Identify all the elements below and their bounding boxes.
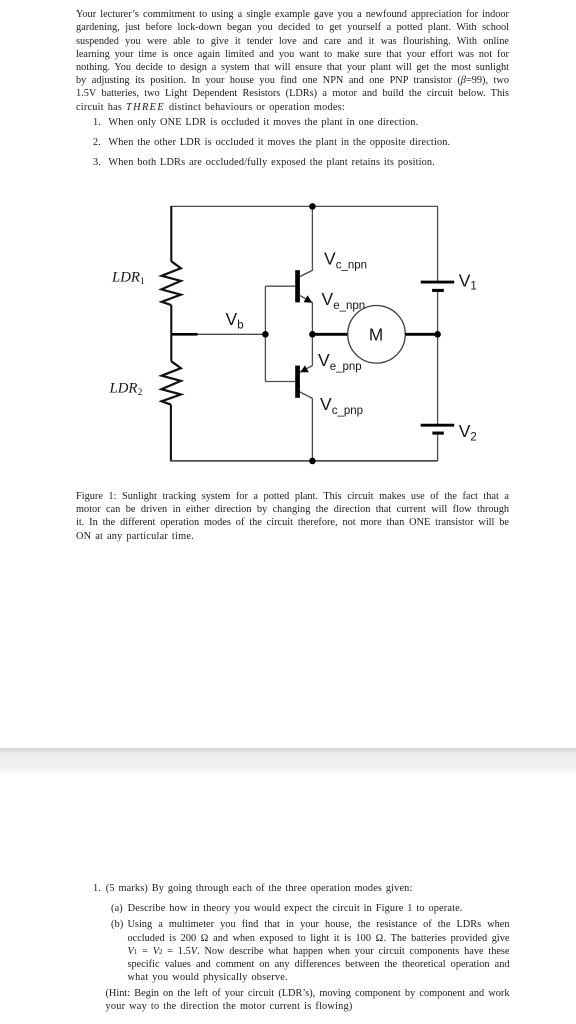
wire left rail middle [170, 305, 172, 361]
svg-text:M: M [369, 324, 383, 344]
junction node bottom [309, 458, 316, 465]
wire top [171, 205, 438, 207]
question block [93, 882, 413, 895]
wire left rail lower [170, 405, 172, 461]
transistor Q1 NPN emitter arrow [304, 295, 312, 302]
wire Vb thick tick [171, 333, 198, 336]
wire left rail upper [170, 206, 172, 262]
wire center rail node to PNP emitter [311, 334, 313, 366]
resistor LDR1 [161, 261, 181, 305]
wire right rail mid [437, 292, 439, 424]
motor M1 circle [348, 306, 406, 364]
junction node top [309, 203, 316, 210]
wire right rail bottom [437, 435, 439, 461]
svg-text:Vc_npn: Vc_npn [324, 248, 367, 271]
battery V1 plate long [421, 281, 455, 284]
wire center rail emitter to node [311, 302, 313, 334]
wire center rail upper [311, 206, 313, 270]
wire Q1 base [265, 285, 295, 287]
wire bottom [170, 460, 438, 462]
svg-text:V2: V2 [459, 421, 477, 443]
resistor LDR2 [161, 361, 181, 404]
transistor Q1 NPN base bar [295, 270, 300, 302]
transistor Q2 PNP emitter diagonal [300, 366, 313, 373]
svg-text:LDR2: LDR2 [109, 381, 143, 399]
transistor Q2 PNP collector diagonal [300, 392, 313, 399]
junction node center (emitters / motor) [309, 331, 316, 338]
caption [76, 490, 509, 503]
transistor Q1 NPN emitter diagonal [300, 295, 313, 302]
page separator band [0, 748, 576, 776]
svg-text:Vc_pnp: Vc_pnp [320, 394, 363, 417]
battery V2 plate long [421, 424, 455, 427]
svg-text:Ve_npn: Ve_npn [322, 289, 366, 312]
wire node to motor thick [312, 333, 348, 336]
battery V1 plate short [432, 289, 444, 292]
paragraph [76, 8, 509, 21]
junction node Vb [262, 331, 269, 338]
wire motor to right rail thick [405, 333, 437, 336]
wire Q2 base [265, 381, 295, 383]
svg-text:Vb: Vb [226, 309, 244, 331]
transistor Q1 NPN collector diagonal [300, 270, 313, 276]
wire Vb to base rail [198, 333, 266, 335]
battery V2 plate short [432, 432, 443, 435]
svg-text:V1: V1 [459, 270, 477, 292]
transistor Q2 PNP base bar [295, 366, 300, 398]
wire center rail lower [311, 398, 313, 461]
svg-text:LDR1: LDR1 [111, 270, 145, 288]
list [93, 116, 418, 129]
wire right rail top [437, 206, 439, 281]
transistor Q2 PNP emitter arrow [300, 365, 308, 372]
wire base rail vertical [264, 286, 266, 381]
junction node motor right [434, 331, 441, 338]
